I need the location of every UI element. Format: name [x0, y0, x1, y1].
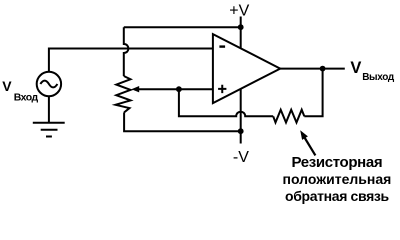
annotation arrow to feedback resistor: [300, 130, 308, 140]
wire potentiometer bottom to -V rail: [124, 112, 241, 131]
svg-text:-V: -V: [233, 149, 249, 166]
ground: [33, 123, 65, 137]
voltage source VS1: [37, 72, 61, 96]
wire wiper to non-inverting input: [137, 88, 213, 90]
wire feedback from node to resistor, hop over -V rail: [179, 89, 273, 116]
node junction dot wiper/feedback: [176, 86, 182, 92]
node junction dot -V: [238, 128, 244, 134]
node junction dot +V: [238, 24, 244, 30]
node junction dot output: [320, 66, 326, 72]
wire resistor to output node: [304, 69, 322, 117]
wire source bottom lead: [48, 97, 50, 123]
wire vertical +V rail to potentiometer top, with hop over input wire: [124, 27, 129, 76]
svg-text:Резисторная: Резисторная: [292, 154, 383, 171]
wire +V stub: [240, 17, 242, 48]
wire top horizontal to +V node: [124, 26, 241, 28]
potentiometer R1 body: [116, 76, 131, 112]
wire output: [280, 68, 345, 70]
op-amp minus pin mark: [219, 45, 225, 47]
svg-text:V: V: [2, 78, 12, 94]
wiper arrow of potentiometer: [131, 86, 139, 92]
svg-text:+V: +V: [229, 2, 249, 19]
svg-text:положительная: положительная: [282, 171, 391, 187]
svg-text:Вход: Вход: [14, 91, 39, 103]
svg-text:V: V: [350, 59, 361, 77]
op-amp plus pin mark: [218, 85, 226, 93]
resistor R2 feedback body: [273, 110, 304, 123]
wire source top lead to inverting input: [49, 49, 213, 72]
wire -V rail: [240, 89, 242, 144]
op-amp U1: [213, 34, 280, 103]
svg-text:обратная связь: обратная связь: [285, 188, 389, 204]
svg-text:Выход: Выход: [362, 72, 395, 83]
sine symbol of source: [40, 81, 57, 88]
